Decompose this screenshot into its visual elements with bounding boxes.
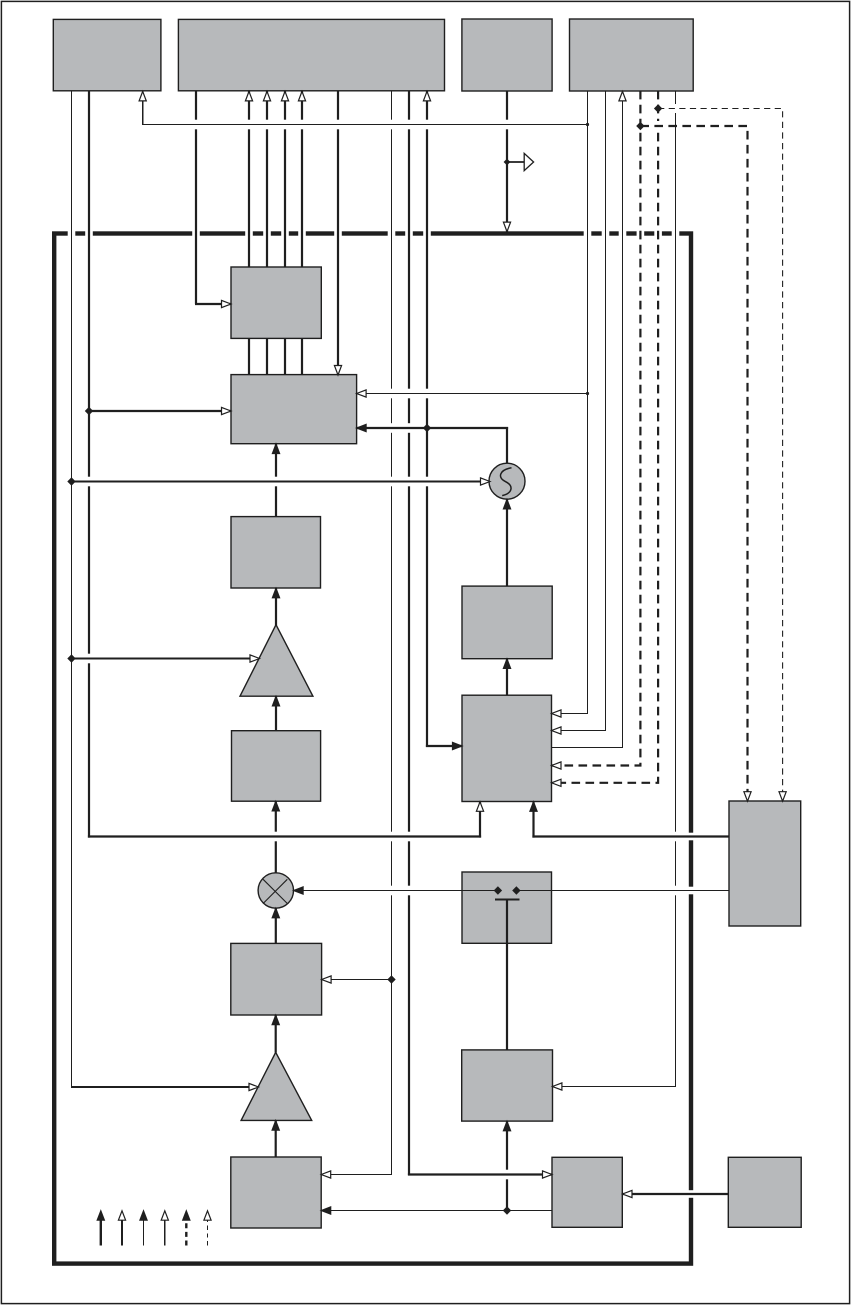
solid arrow into oscillator bottom (503, 499, 510, 509)
wire: oscillator output line vertical, block A2 down to block B4 corner (426, 91, 428, 747)
switch output stem down to block B9 (506, 900, 508, 1051)
open arrow up into block B4 bottom (476, 802, 483, 812)
solid arrow into block B9 bottom (503, 1121, 510, 1131)
wire: block A2 output down to corner for block B1 (thick) (195, 91, 197, 304)
wire: amp A5 input from block B10 (275, 696, 277, 731)
open arrow into block B4 right input 1 (552, 710, 562, 717)
open arrow into modulator B2 left (222, 407, 232, 414)
open arrow down at enclosure from block A3 (503, 222, 510, 232)
wire: reference line corner into block B8 (thick) (408, 1173, 552, 1175)
wire: switch line right part to block B5 (516, 890, 729, 892)
solid arrow into modulator B2 right (oscillator line) (357, 424, 367, 431)
wire: status line (thin) from block A2 down to corner at block B7 (391, 91, 393, 1175)
wire: block A2 line down into modulator B2 top (thick) (337, 91, 339, 375)
mixer X cross (263, 879, 287, 903)
solid arrow chain: into block B10 bottom (272, 801, 279, 811)
wire: vertical stub from block B5 line up into block B4 (solid arrow) (532, 802, 534, 838)
wire: block B9 bottom line to junction with B8-B7 line (506, 1121, 508, 1210)
junction diamond tuning line / amp A5 branch (67, 654, 75, 662)
open arrow into block B4 right dashed input 1 (552, 762, 562, 769)
wire: amp A6 input from block B7 (275, 1120, 277, 1157)
junction diamond dashed control 1 branch (636, 122, 644, 130)
wire: oscillator feed vertical into oscillator top (506, 427, 508, 465)
wire hop gaps at crossings (194, 120, 197, 130)
open arrow into block B8 left (543, 1171, 553, 1178)
solid arrow chain: into amp A5 bottom (272, 696, 279, 706)
wire: line from block B8 to block B7 (thin) (321, 1210, 552, 1212)
junction diamond oscillator output line (423, 424, 431, 432)
wire: bus lines block A2 to modulator B2 (4 lines) (248, 91, 250, 375)
wire: corner of A4 line 1 into block B4 (thin) (552, 713, 589, 715)
wire: thin dashed branch to block B5 top right (658, 109, 783, 801)
gaps in enclosure top border where wires cross (68, 230, 76, 236)
solid arrow into block B7 right from B8 (321, 1207, 331, 1214)
wire: block A4 line 2 (thin) vertical (605, 91, 607, 731)
wire: modulator B2 input from control line junction (thick) (89, 410, 231, 412)
open arrow into oscillator left (481, 478, 491, 485)
wire: status line corner into block B7 (thin) (321, 1174, 392, 1176)
solid arrow chain: into block B3 bottom (272, 588, 279, 598)
open arrow into modulator B2 right (thin line) (357, 390, 367, 397)
wire: dashed control 1 from block A4 (thick dashed) with corner into B4 (552, 91, 641, 766)
block B1 (interface) (231, 267, 321, 338)
wire: tuning line branch to amp A5 (medium) (72, 658, 254, 660)
block B12 (bottom right outside) (728, 1157, 801, 1227)
block B3 (231, 517, 321, 588)
junction diamond tuning line / oscillator branch (67, 477, 75, 485)
amplifier A6 (triangle) (241, 1052, 312, 1120)
switch T bar (495, 899, 520, 901)
wire: block A4 line 3 corner into block B9 (thin) (552, 1086, 676, 1088)
wire: oscillator line into modulator B2 (thick) (357, 427, 509, 429)
junction dot A4 line 1 / modulator B2 branch (586, 392, 589, 395)
wire: switch line from mixer to block B5 (thin) left part (294, 890, 498, 892)
junction diamond on control line at modulator branch (85, 407, 93, 415)
open dashed arrow down into block B5 top left (744, 792, 751, 802)
block B6 (231, 943, 322, 1015)
wire: tuning line corner to amplifier A6 (medium) (71, 1086, 252, 1088)
wire: block B10 input from mixer (275, 801, 277, 873)
wire: mixer input from block B6 (275, 908, 277, 943)
open arrow up into block A4 from block B4 (619, 91, 626, 101)
solid arrow into mixer right (294, 887, 304, 894)
open arrow down into modulator B2 top (334, 366, 341, 376)
wire: branch of status line into block B6 (thin) (321, 979, 391, 981)
wire: oscillator input from block B11 (506, 500, 508, 587)
open arrow into block B4 right dashed input 2 (552, 779, 562, 786)
oscillator (sine source) circle (489, 463, 525, 499)
wire: dashed branch to block B5 top left (thick dashed) (640, 126, 747, 800)
wire: modulator B2 input from block B3 (275, 444, 277, 517)
junction diamond status line / block B6 branch (387, 975, 395, 983)
open arrow up into block A1 (139, 91, 146, 101)
block B2 (modulator) (231, 375, 357, 444)
wire: vertical stub up to block B4 bottom left (open arrow) (479, 802, 481, 838)
legend arrow 5: thick dashed line solid head (185, 1220, 187, 1246)
switch line inside box right (516, 890, 551, 892)
solid arrow into block B4 left (453, 742, 463, 749)
block A3 (462, 19, 552, 91)
solid arrow into mixer bottom (272, 908, 279, 918)
sine symbol inside oscillator (501, 468, 512, 496)
wire: block A4 line 1 (thin) vertical (587, 91, 589, 714)
mixer circle (258, 873, 293, 908)
wire: block B4 output vertical up to block A4 (thin) (622, 91, 624, 748)
open arrow into amp A5 left (250, 655, 260, 662)
switch contact diamond right (512, 886, 520, 894)
DUT enclosure border (thick) (54, 234, 691, 1264)
block B4 (synthesizer) (462, 695, 552, 801)
block A4 (top right) (570, 19, 694, 91)
switch contact diamond left (494, 886, 502, 894)
open arrow up into block A2 from oscillator line (423, 91, 430, 101)
wire: reference line (thick) from block A2 down to corner at block B8 (408, 91, 410, 1175)
wire: block B6 input from amp A6 (275, 1015, 277, 1053)
open arrow into block B1 left (222, 300, 232, 307)
wire: corner of A4 line 2 into block B4 (thin) (552, 730, 607, 732)
wire: oscillator output corner into block B4 left (thick) (426, 745, 462, 747)
junction diamond dashed control 2 branch (654, 104, 662, 112)
block B8 (bottom middle) (552, 1157, 622, 1227)
solid arrow chain: into modulator B2 bottom (272, 444, 279, 454)
gaps in enclosure right border where wires cross (688, 833, 694, 841)
block A1 (top left) (53, 19, 161, 90)
open arrow into block B9 right (552, 1083, 562, 1090)
block B9 (462, 1050, 553, 1121)
wire: block A4 line 3 (thin) vertical (675, 91, 677, 1087)
wire: block B11 input from block B4 (506, 659, 508, 696)
wire: control line horizontal to corner below block B4 (thick) (88, 835, 481, 837)
wire: block B5 output to block B4 horizontal (thick) (532, 835, 729, 837)
solid arrow into amp A6 bottom (272, 1121, 279, 1131)
block B10 (232, 731, 321, 802)
block B7 (bottom left) (231, 1157, 321, 1228)
switch line inside box left (462, 890, 498, 892)
block B5 (right outside column) (729, 801, 801, 926)
block A2 (top wide) (178, 19, 444, 90)
open arrow into block B6 right (322, 976, 332, 983)
wire: horizontal from A4 line 1 to block A1 (thin) (142, 124, 587, 126)
legend arrow 2: medium solid line open head (121, 1221, 123, 1246)
legend arrow 4: thin solid line open head (164, 1221, 166, 1246)
wire: dashed control 2 from block A4 (thick dashed) with corner into B4 (552, 91, 659, 783)
wire: corner of B4 output to A4 (thin) (552, 747, 624, 749)
wire: block A2 output into block B1 left (horizontal) (195, 303, 231, 305)
wire: block A3 output down to enclosure (thick) (506, 91, 508, 232)
wire: stub from block A1 up-arrow to horizontal (142, 91, 144, 125)
block B11 (462, 586, 552, 659)
solid arrow up into block B4 bottom (530, 802, 537, 812)
amplifier A5 (triangle) (240, 625, 313, 697)
solid arrow into block B11 bottom (503, 659, 510, 669)
wire: modulator B2 input line from A4 line 1 (thin) (357, 393, 588, 395)
junction diamond at block B9 output on B8-B7 line (503, 1206, 511, 1214)
open arrow into block B8 right from B12 (623, 1190, 633, 1197)
wire: control line from block A1 (thick) down to corner (88, 91, 90, 838)
legend arrow 6: thin dashed line open head (207, 1221, 209, 1246)
probe tap symbol on block A3 line (504, 159, 511, 166)
wire: block B12 output to block B8 (thick) (623, 1193, 729, 1195)
legend arrow 3: thin solid line solid head (143, 1220, 145, 1246)
block B13 (switch box) (462, 872, 552, 943)
wire: tuning line branch to oscillator (medium) (72, 481, 491, 483)
open arrow into block B4 right input 2 (552, 727, 562, 734)
junction dot A4 line 1 / block A1 branch (586, 123, 589, 126)
legend arrow 1: thick solid line solid head (100, 1220, 102, 1246)
open arrow into block B7 right (321, 1171, 331, 1178)
open arrows up into block A2 from bus lines (245, 91, 252, 101)
solid arrow into block B6 bottom (272, 1015, 279, 1024)
wire: block B3 input from amp A5 (275, 588, 277, 625)
open dashed arrow down into block B5 top right (779, 792, 786, 802)
open arrow into amp A6 left (249, 1083, 259, 1090)
wire: tuning line from block A1 down left side (thin) (71, 91, 73, 1087)
